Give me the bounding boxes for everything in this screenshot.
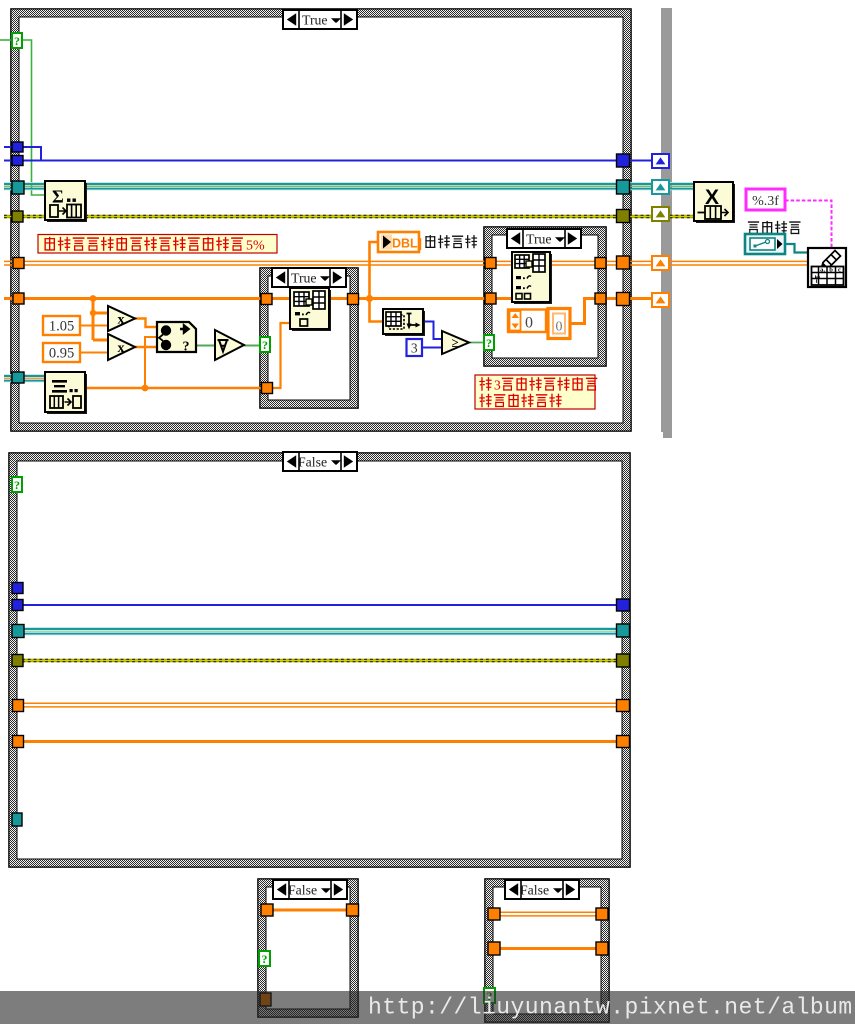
case selector label True structure 1 (283, 10, 357, 29)
wire blue to shift register (629, 160, 654, 162)
svg-text:0: 0 (525, 315, 533, 332)
junction dot orange main (90, 295, 97, 302)
svg-text:%.3f: %.3f (752, 194, 779, 209)
multiply node 2 (108, 334, 135, 360)
tunnel blue 2 structure 1 left (12, 156, 23, 166)
svg-text:http://liuyunantw.pixnet.net/a: http://liuyunantw.pixnet.net/album (368, 995, 853, 1021)
express node 1 (build table) (45, 181, 87, 222)
tunnel olive structure 1 left (12, 211, 23, 222)
selector tunnel ? inner case 2 (484, 335, 494, 350)
svg-text:?: ? (14, 34, 20, 48)
wire blue main run (23, 160, 619, 162)
selector tunnel ? structure 2 (12, 477, 22, 492)
grey vertical bar right of structure 1 (661, 8, 672, 438)
wire orange vertical to DBL local variable (370, 242, 379, 299)
shift register terminal olive (652, 207, 669, 221)
selector tunnel ? small B (484, 988, 495, 1003)
wire green greater-equal to inner case 2 selector (467, 342, 485, 344)
small case structure A (False) border (258, 879, 358, 1017)
svg-text:True: True (526, 231, 552, 246)
tunnel olive structure 2 right (617, 654, 630, 667)
wire orange inner case 1 element input (272, 323, 291, 388)
svg-text:5%: 5% (246, 239, 265, 254)
wire error cluster structure 2 (22, 659, 619, 662)
wire green boolean from left edge to ? tunnel (0, 39, 12, 41)
tunnel orange inner case 1 left top (261, 294, 272, 305)
numeric constant 1.05 (43, 316, 80, 335)
tunnel orange 2D inner case 2 left (485, 258, 496, 269)
tunnel teal dynamic structure 1 left (12, 372, 24, 383)
junction dot orange at x369 (366, 295, 373, 302)
wire orange to shift register y298 (629, 297, 654, 300)
tunnel orange 2D structure 2 left (13, 700, 24, 712)
inner case structure 1 (True) border (260, 268, 358, 408)
tunnel orange small A bottom (260, 993, 271, 1006)
small case structure B (False) border (485, 879, 609, 1022)
watermark band (0, 991, 855, 1024)
wire orange single small structure B (497, 947, 599, 950)
wire multiply 1 out to in-range upper (134, 319, 157, 328)
wire blue step from tunnel 1 (23, 147, 41, 161)
label compare-data (CJK) (425, 235, 477, 248)
shift register terminal orange 2D (652, 256, 669, 270)
svg-text:?: ? (262, 952, 268, 966)
svg-text:1=: 1= (812, 275, 820, 283)
tunnel teal structure 1 right (617, 180, 630, 194)
wire orange small structure A (270, 909, 350, 912)
numeric constant 0.95 (43, 343, 80, 362)
shift register terminal blue (652, 154, 669, 168)
insert-into-array node inner case 1 (290, 288, 331, 331)
wire express node 2 out to inner case tunnel (85, 387, 262, 390)
svg-text:3: 3 (411, 341, 418, 356)
wire blue const 3 to greater-equal (422, 347, 442, 349)
tunnel orange 2D small B right (596, 908, 608, 920)
wire blue structure 2 (22, 604, 619, 606)
wire orange 1D array main run y298 (4, 297, 514, 300)
selector tunnel ? inner case 1 (260, 337, 270, 352)
wire green and-array to inner case selector (244, 345, 261, 347)
tunnel orange 1D inner case 2 right (595, 293, 606, 304)
case structure 1 (True) border (11, 9, 631, 431)
tunnel blue 1 structure 1 left (12, 142, 23, 152)
wire error cluster to X node (629, 215, 694, 218)
numeric constant 0 with spinner (508, 310, 546, 333)
numeric constant 3 (407, 339, 423, 356)
svg-text:False: False (288, 882, 317, 897)
case selector label True inner case 2 (507, 229, 581, 248)
tunnel orange 1D small B left (488, 942, 500, 955)
and-array-elements node (215, 330, 244, 360)
wire multiply 2 out to in-range lower (134, 346, 157, 348)
svg-text:1.05: 1.05 (49, 319, 74, 335)
tunnel teal structure 2 right (617, 624, 630, 637)
wire blue stub left y147 (4, 146, 12, 148)
numeric constant 0 (second) (548, 309, 570, 339)
wire orange double small structure B (497, 912, 599, 916)
wire blue stub left y160 (4, 160, 12, 162)
svg-text:0.95: 0.95 (49, 346, 74, 362)
tunnel teal unwired structure 2 left (12, 813, 22, 826)
string constant %.3f (746, 189, 785, 210)
wire const 0.95 to multiply 2 (80, 352, 108, 354)
local variable [DBL] (378, 232, 422, 252)
tunnel teal structure 2 left (12, 625, 24, 638)
multiply node 1 (108, 306, 135, 331)
comment box 1 (compare new/old data error < 5%) (38, 235, 277, 254)
wire orange single structure 2 (22, 740, 619, 743)
case structure 2 (False) border (9, 453, 630, 867)
wire error cluster main run (4, 215, 619, 218)
svg-text:c: c (838, 267, 841, 274)
wire teal/orange bundle to express node 2 (4, 375, 45, 382)
wire teal/green bundle (queue+bool) main run (4, 183, 619, 190)
wire orange vertical down to array size (370, 299, 384, 322)
wire teal bundle structure 2 (22, 628, 619, 635)
tunnel blue structure 2 left (12, 600, 23, 611)
tunnel orange inner case 1 left bottom (262, 383, 273, 394)
tunnel orange 1D structure 1 left (13, 293, 24, 304)
case selector label False structure 2 (283, 452, 357, 471)
wire green in-range to and-array (196, 345, 215, 347)
wire branch up to in-range middle (145, 337, 157, 388)
svg-text:False: False (520, 882, 549, 897)
write-to-spreadsheet-file node (808, 248, 846, 287)
selector tunnel ? small A (259, 951, 270, 966)
svg-text:True: True (291, 270, 317, 285)
tunnel orange small A right (347, 904, 359, 916)
tunnel blue structure 1 right (617, 154, 630, 167)
tunnel orange 2D small B left (488, 908, 500, 920)
tunnel orange 2D structure 2 right (617, 700, 630, 712)
wire orange 2D array double line main run (4, 261, 620, 265)
junction dot orange branch (90, 310, 96, 316)
tunnel olive structure 1 right (617, 210, 630, 223)
wire orange branch verticals to multiplies (93, 299, 108, 341)
tunnel orange 2D structure 1 left (13, 258, 24, 269)
wire green boolean vertical to express node 1 (22, 40, 45, 195)
selector tunnel ? structure 1 (12, 33, 22, 48)
wire orange double line to write node (630, 261, 808, 265)
case selector label True inner case 1 (272, 268, 346, 287)
express node 2 (convert from dynamic data) (45, 372, 87, 414)
svg-text:b: b (829, 267, 833, 274)
case selector label False small B (505, 880, 579, 899)
svg-text:a,: a, (820, 267, 825, 274)
svg-text:x: x (118, 341, 125, 356)
tunnel orange 1D structure 1 right (617, 293, 630, 306)
in-range-and-coerce node (157, 322, 196, 355)
comment box 2 (send buffered data / clear compare data) (475, 375, 597, 409)
svg-text:3: 3 (494, 378, 501, 393)
svg-text:?: ? (262, 338, 268, 352)
tunnel orange small A left (261, 904, 273, 916)
tunnel teal structure 1 left (12, 181, 24, 194)
array-size node (383, 309, 425, 336)
wire teal bundle to shift register and X node (629, 183, 694, 190)
svg-text:DBL]: DBL] (392, 237, 422, 251)
shift register terminal teal (652, 180, 669, 194)
tunnel blue unwired structure 2 left (12, 583, 23, 594)
greater-or-equal node (442, 331, 469, 354)
svg-text:?: ? (183, 340, 190, 355)
wire pink string format to write node (785, 201, 832, 250)
tunnel orange 1D structure 2 left (13, 736, 24, 748)
svg-text:?: ? (486, 336, 492, 350)
shift register terminal orange 1D (652, 293, 669, 307)
tunnel orange inner case 1 right (348, 294, 359, 305)
svg-text:Σ: Σ (52, 187, 64, 207)
file path constant (745, 234, 785, 254)
tunnel blue structure 2 right (617, 599, 630, 611)
wire orange double structure 2 (22, 703, 619, 707)
wire orange from 0 constant up to right tunnel (570, 299, 618, 324)
svg-text:True: True (302, 12, 328, 27)
insert-into-array node inner case 2 (512, 252, 552, 304)
junction dot orange at x145 (142, 385, 149, 392)
tunnel orange 2D structure 1 right (617, 256, 630, 269)
case selector label False small A (273, 880, 347, 899)
svg-text:False: False (298, 454, 327, 469)
svg-text:0: 0 (556, 320, 563, 335)
svg-text:x: x (118, 313, 125, 328)
tunnel orange 2D inner case 2 right (595, 258, 606, 269)
wire teal file path to write node (785, 244, 808, 253)
svg-text:?: ? (14, 478, 20, 492)
wire const 1.05 to multiply 1 (80, 325, 108, 327)
tunnel orange 1D inner case 2 left (485, 293, 496, 304)
inner case structure 2 (True) border (484, 227, 606, 366)
tunnel orange 1D structure 2 right (617, 736, 630, 748)
wire blue array size to greater-equal (424, 322, 442, 340)
tunnel olive structure 2 left (12, 655, 23, 667)
label save-path (CJK) (748, 221, 801, 234)
release queue node (X) (694, 182, 735, 223)
svg-text:≥: ≥ (452, 335, 459, 350)
tunnel orange 1D small B right (596, 942, 608, 955)
